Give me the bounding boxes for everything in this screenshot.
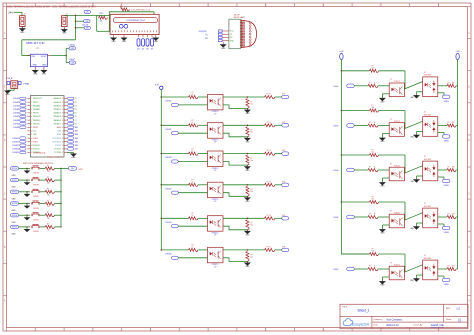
svg-text:Adarsh_Nair: Adarsh_Nair [431, 324, 444, 327]
mcu pin L15 [12, 148, 41, 151]
mcu U2 ATMEGA32 [30, 96, 64, 158]
terminal block J2 [62, 14, 68, 27]
svg-text:SW-PB: SW-PB [33, 196, 39, 198]
LCD pins [113, 30, 157, 32]
wire label to opto block 5 [178, 225, 207, 227]
svg-text:R? 1k: R? 1k [267, 215, 271, 217]
wire driver gnd block 1 [417, 91, 423, 93]
mcu pin L6 [13, 115, 41, 118]
wire driver output block 2 [438, 125, 447, 127]
wire to output label block 4 [275, 184, 282, 186]
svg-text:SW1: SW1 [75, 127, 79, 129]
wire label to opto block 1 [178, 104, 207, 106]
svg-text:R? 1k: R? 1k [267, 181, 271, 183]
wire from 24V bus to LCD [97, 14, 110, 16]
svg-text:R?: R? [372, 105, 374, 107]
ground block 4 [245, 196, 250, 200]
junction mid rail block 6 [161, 249, 163, 251]
LCD display U3 16X2 [110, 14, 159, 34]
wire resistor to rail row 2 [55, 179, 62, 181]
svg-text:GND: GND [230, 40, 235, 42]
mcu pin L9 [13, 126, 38, 129]
mcu pin R7 [54, 119, 77, 122]
ground under J3 [13, 88, 15, 90]
ground under RS232 [222, 42, 224, 44]
svg-text:1.5KHZ2: 1.5KHZ2 [13, 105, 19, 107]
svg-text:10k: 10k [250, 256, 253, 258]
wire rail to resistor block 3 [161, 153, 188, 155]
svg-text:GND: GND [380, 233, 385, 235]
wire opto emitter gnd right block 2 [382, 133, 389, 135]
EasyEDA logo [343, 319, 369, 327]
ground under J1 [20, 27, 25, 31]
wire resistor to opto block 2 [198, 124, 208, 126]
svg-text:GPIO0: GPIO0 [12, 168, 17, 170]
svg-text:1.5KHZ5: 1.5KHZ5 [13, 116, 19, 118]
ground opto right block 4 [380, 229, 385, 232]
svg-text:GND: GND [221, 48, 226, 50]
svg-text:1.5KH1: 1.5KH1 [333, 86, 338, 88]
resistor pulldown block 2 [246, 127, 249, 137]
wire driver gnd block 3 [417, 175, 423, 177]
svg-text:R?: R? [250, 158, 252, 160]
svg-text:U?: U? [214, 113, 216, 115]
wire VOUT [50, 55, 66, 57]
svg-text:R?: R? [369, 82, 371, 84]
svg-text:U?: U? [424, 72, 426, 74]
svg-text:1.5KHZ0: 1.5KHZ0 [13, 98, 19, 100]
mcu pin R6 [54, 115, 77, 118]
wire opto collector block 5 [223, 217, 247, 219]
svg-text:GPIO2: GPIO2 [12, 192, 17, 194]
wire opto emitter gnd right block 1 [382, 93, 389, 95]
mcu pin R15 [54, 148, 78, 151]
wire rail corner to block5 [341, 253, 369, 255]
wire driver gnd block 2 [417, 131, 423, 133]
svg-text:GND: GND [245, 113, 250, 115]
wire pullup to collector block 3 [379, 154, 405, 156]
resistor pulldown block 4 [246, 186, 249, 196]
svg-text:D6: D6 [146, 49, 148, 51]
svg-text:R?: R? [369, 122, 371, 124]
wire rail pullup block 4 [341, 201, 369, 203]
connector J3 PYNB [6, 77, 29, 88]
mcu pin L1 [13, 97, 42, 100]
svg-text:PB7/SCK: PB7/SCK [33, 123, 41, 125]
svg-text:1.5KHZ2: 1.5KHZ2 [165, 129, 172, 131]
svg-text:REV:: REV: [446, 308, 451, 310]
ground opto right block 5 [380, 281, 385, 284]
svg-text:PYN_A: PYN_A [6, 77, 13, 80]
power tap for LCD backlight [120, 5, 122, 8]
wire right column right rail [457, 60, 459, 269]
net label VIN [84, 20, 91, 23]
svg-text:24VB5: 24VB5 [444, 284, 449, 286]
svg-text:R?: R? [372, 65, 374, 67]
mcu pin L4 [13, 108, 40, 111]
ground LCD pin16 [154, 37, 159, 40]
svg-text:R?: R? [192, 213, 194, 215]
mcu pin L14 [12, 144, 41, 147]
wire diagonal to driver block 2 [404, 121, 422, 129]
svg-text:R?: R? [369, 266, 371, 268]
svg-text:GND: GND [11, 198, 16, 200]
svg-text:Company:: Company: [373, 319, 383, 321]
svg-text:PD0/RXD: PD0/RXD [33, 145, 41, 147]
svg-text:PYNB: PYNB [23, 84, 29, 86]
wire driver out2 block 1 [438, 92, 444, 94]
wire rail to resistor block 6 [161, 249, 188, 251]
svg-text:CON_TERMINAL_BLOCK_01X02 10 WA: CON_TERMINAL_BLOCK_01X02 10 WAY [52, 5, 96, 8]
switch SW1 [31, 168, 33, 170]
net label SW row 5 [10, 214, 18, 217]
switch SW4 [31, 203, 33, 205]
svg-text:R?: R? [250, 101, 252, 103]
svg-text:PC4/TDO: PC4/TDO [54, 149, 62, 151]
net label SW row 6 [10, 225, 18, 228]
svg-text:SW2: SW2 [75, 131, 79, 133]
svg-text:U?: U? [214, 201, 216, 203]
mcu pin R12 [52, 137, 78, 140]
wire switch to resistor row 4 [40, 203, 45, 205]
wire to output label block 3 [275, 153, 282, 155]
wire switch 3V3 rail [60, 168, 62, 227]
wire opto emitter block 1 [223, 105, 247, 109]
wire resistor to rail row 6 [55, 226, 62, 228]
svg-text:U?: U? [424, 255, 426, 257]
svg-text:R?: R? [369, 167, 371, 169]
svg-text:MOC3021: MOC3021 [424, 75, 431, 77]
wire switch row 1 [19, 167, 30, 169]
wire switch row 4 [19, 203, 30, 205]
svg-text:1.5KH3: 1.5KH3 [333, 170, 338, 172]
svg-text:1.5KH4: 1.5KH4 [333, 217, 338, 219]
wire to output label block 6 [275, 249, 282, 251]
svg-text:U?: U? [424, 156, 426, 158]
svg-text:MOC3021: MOC3021 [424, 258, 431, 260]
svg-text:GND: GND [245, 235, 250, 237]
svg-text:U?: U? [390, 79, 392, 81]
svg-text:GND: GND [32, 65, 37, 67]
resistor pulldown block 5 [246, 220, 249, 230]
ground under regulator pin GND1 [33, 69, 38, 72]
svg-text:LCD_PWR 16X2_LCD: LCD_PWR 16X2_LCD [131, 9, 151, 11]
svg-text:10k: 10k [47, 194, 50, 196]
svg-text:VIN: VIN [31, 56, 35, 58]
ground block 5 [245, 230, 250, 234]
mcu pin R10 [58, 130, 79, 133]
wire diagonal to driver block 5 [404, 265, 422, 273]
wire driver out2 block 3 [438, 176, 444, 178]
svg-text:GPIO3: GPIO3 [12, 203, 17, 205]
mcu pin R8 [54, 122, 77, 125]
svg-text:R2: R2 [75, 102, 77, 104]
ground switch row 2 [25, 182, 29, 185]
ground switch row 4 [25, 206, 29, 209]
svg-text:1.5KH2: 1.5KH2 [333, 126, 338, 128]
wire to output label block 1 [275, 96, 282, 98]
net label output right block 3 [442, 179, 450, 182]
svg-text:PB6/MISO: PB6/MISO [33, 120, 41, 122]
wire opto emitter gnd right block 3 [382, 177, 389, 179]
svg-text:1.5KHZ3: 1.5KHZ3 [13, 109, 19, 111]
svg-text:GND: GND [245, 170, 250, 172]
net label output right block 4 [442, 226, 450, 229]
wire to output label block 5 [275, 217, 282, 219]
svg-text:D7: D7 [151, 49, 153, 51]
junction mid rail block 2 [161, 125, 163, 127]
svg-text:360: 360 [452, 82, 455, 84]
mcu pin L3 [13, 104, 40, 107]
junction right rail block 3 [341, 154, 343, 156]
wire to output resistor block 1 [247, 96, 264, 98]
svg-text:10k: 10k [100, 20, 103, 22]
svg-text:GND: GND [245, 142, 250, 144]
mcu pin L7 [13, 119, 41, 122]
resistor pulldown block 6 [246, 251, 249, 261]
svg-text:GND: GND [11, 234, 16, 236]
svg-text:PC6/TOSC1: PC6/TOSC1 [52, 141, 61, 143]
ground switch row 1 [25, 170, 29, 173]
svg-text:10k: 10k [47, 206, 50, 208]
ground opto right block 2 [380, 137, 385, 140]
optocoupler U3 PC817 [208, 151, 224, 167]
svg-text:10k: 10k [250, 225, 253, 227]
wire opto emitter block 5 [223, 226, 247, 230]
ground opto right block 3 [380, 182, 385, 185]
wire to output resistor block 4 [247, 184, 264, 186]
junction mid rail block 4 [161, 184, 163, 186]
optocoupler U4 PC817 [208, 182, 224, 198]
svg-text:U?: U? [214, 266, 216, 268]
svg-text:GND: GND [154, 41, 159, 43]
mcu pin R1 [54, 97, 77, 100]
svg-text:LCD/DISPLAY_16X2: LCD/DISPLAY_16X2 [126, 19, 146, 22]
svg-text:GPIO4: GPIO4 [12, 215, 17, 217]
svg-text:R5: R5 [75, 113, 77, 115]
svg-text:Sheet_1: Sheet_1 [358, 308, 370, 312]
svg-text:R?: R? [250, 130, 252, 132]
svg-text:PB1/T1: PB1/T1 [33, 102, 38, 104]
svg-text:10k: 10k [250, 191, 253, 193]
svg-text:GND: GND [42, 65, 47, 67]
ground switch row 5 [25, 217, 29, 220]
svg-text:1.5KHZ13: 1.5KHZ13 [12, 145, 19, 147]
wire driver out2 block 5 [438, 275, 444, 277]
svg-text:R?: R? [250, 189, 252, 191]
wire pullup to collector block 4 [379, 201, 405, 203]
svg-text:1.0: 1.0 [456, 307, 460, 311]
junction mid rail block 1 [161, 96, 163, 98]
mcu pin R4 [54, 108, 77, 111]
svg-text:1.5KHZ8: 1.5KHZ8 [13, 127, 19, 129]
ground mcu [71, 153, 76, 157]
wire driver out2 block 4 [438, 223, 444, 225]
svg-text:J?: J? [24, 14, 26, 16]
svg-text:SW-PB: SW-PB [33, 231, 39, 233]
svg-text:1.5KHZ: 1.5KHZ [69, 45, 76, 47]
svg-text:24VB1: 24VB1 [444, 101, 449, 103]
wire rail to resistor block 4 [161, 184, 188, 186]
net flag 24V [84, 10, 91, 13]
mcu pin R9 [57, 126, 78, 129]
svg-text:R?: R? [372, 249, 374, 251]
ground block 3 [245, 165, 250, 169]
svg-text:GND: GND [380, 285, 385, 287]
svg-text:R? 1k: R? 1k [267, 247, 271, 249]
wire resistor to opto block 5 [198, 217, 208, 219]
svg-text:10k: 10k [47, 171, 50, 173]
svg-text:Drawn By:: Drawn By: [414, 325, 424, 327]
wire diagonal to driver block 3 [404, 166, 422, 174]
wire loop around LCD [109, 12, 154, 32]
wire diagonal to driver block 1 [404, 82, 422, 90]
svg-text:PC7/TOSC2: PC7/TOSC2 [52, 138, 61, 140]
svg-text:R?: R? [250, 254, 252, 256]
wire input right block 4 [354, 216, 368, 218]
svg-text:EasyEDA: EasyEDA [352, 321, 369, 326]
net label 24V2 [84, 26, 91, 29]
title block [340, 304, 468, 328]
wire resistor to opto block 6 [198, 249, 208, 251]
wire label to opto block 3 [178, 161, 207, 163]
wire resistor to rail row 4 [55, 203, 62, 205]
svg-text:U?: U? [390, 163, 392, 165]
svg-text:U?: U? [390, 262, 392, 264]
mcu pin L5 [13, 112, 39, 115]
wire resistor to opto block 4 [198, 184, 208, 186]
svg-text:10k: 10k [47, 218, 50, 220]
svg-text:R8: R8 [75, 123, 77, 125]
ground switch row 3 [25, 194, 29, 197]
mcu pin L8 [13, 122, 41, 125]
svg-text:1.5KHZ4: 1.5KHZ4 [13, 113, 19, 115]
wire driver gnd block 4 [417, 222, 423, 224]
junction right rail block 1 [341, 70, 343, 72]
svg-text:PC5/TDI: PC5/TDI [55, 145, 62, 147]
mcu pin L16 [12, 151, 40, 154]
wire resistor to rail row 3 [55, 191, 62, 193]
wire switch row 5 [19, 214, 30, 216]
net labels D4-D7 [137, 39, 154, 51]
svg-text:GND: GND [11, 222, 16, 224]
wire mcu GND [67, 152, 74, 154]
svg-text:R4: R4 [75, 109, 77, 111]
ground LCD pin5 [122, 37, 127, 40]
wire opto emitter gnd right block 5 [382, 276, 389, 278]
mcu pin R16 [54, 152, 67, 154]
svg-text:1.5KHZ12: 1.5KHZ12 [12, 141, 19, 143]
svg-text:24V: 24V [8, 10, 13, 14]
svg-text:D5: D5 [142, 49, 144, 51]
wire driver output block 5 [438, 268, 447, 270]
wire to output resistor block 6 [247, 249, 264, 251]
svg-text:GND: GND [20, 32, 25, 34]
ground LCD pin1 [111, 37, 116, 40]
svg-text:SW6: SW6 [75, 145, 79, 147]
svg-text:U?: U? [424, 203, 426, 205]
mcu pin L10 [27, 131, 37, 133]
wire resistor to rail row 5 [55, 214, 62, 216]
mcu pin L11 [27, 134, 37, 136]
svg-text:2019-12-10: 2019-12-10 [386, 324, 399, 327]
svg-text:1.5KHZ15: 1.5KHZ15 [12, 152, 19, 154]
connector DB9 female [240, 20, 256, 48]
svg-text:GND: GND [380, 102, 385, 104]
ground under regulator pin GND2 [42, 69, 47, 72]
switch SW3 [31, 191, 33, 193]
wire driver output block 3 [438, 169, 447, 171]
terminal block J1 [20, 14, 26, 27]
svg-text:3.3V(RX): 3.3V(RX) [199, 31, 208, 33]
ground under J2 [62, 27, 67, 31]
net label SW row 4 [10, 202, 18, 205]
wire switch to resistor row 2 [40, 179, 45, 181]
svg-text:GPIO1: GPIO1 [12, 180, 17, 182]
svg-text:GND: GND [122, 41, 127, 43]
svg-text:10k: 10k [250, 160, 253, 162]
svg-text:PB0/XCK/T0: PB0/XCK/T0 [33, 98, 42, 100]
wire input right block 1 [354, 85, 368, 87]
svg-text:MOC3021: MOC3021 [424, 159, 431, 161]
svg-text:10k: 10k [47, 230, 50, 232]
wire opto collector block 4 [223, 184, 247, 186]
svg-text:R16: R16 [100, 13, 103, 15]
wire label to opto block 6 [178, 257, 207, 259]
switch SW6 [31, 226, 33, 228]
svg-text:TITLE:: TITLE: [342, 307, 348, 309]
wire to output resistor block 5 [247, 217, 264, 219]
resistor pulldown block 3 [246, 155, 249, 165]
svg-text:R?: R? [192, 245, 194, 247]
wire opto collector block 2 [223, 124, 247, 126]
svg-text:24VB2: 24VB2 [444, 141, 449, 143]
svg-text:RS232 UART: RS232 UART [234, 16, 246, 19]
svg-text:Your Company: Your Company [386, 318, 403, 321]
net label output right block 5 [442, 278, 450, 281]
junction mid rail block 5 [161, 218, 163, 220]
svg-text:360: 360 [452, 214, 455, 216]
wire rail to resistor block 5 [161, 217, 188, 219]
svg-text:SW-PB: SW-PB [33, 173, 39, 175]
svg-text:MOC3021: MOC3021 [424, 114, 431, 116]
mcu pin L12 [12, 137, 38, 140]
junction right rail block 4 [341, 201, 343, 203]
svg-text:GND: GND [5, 94, 10, 96]
svg-text:D4: D4 [137, 49, 139, 51]
wire 24V to J1 [14, 11, 23, 13]
svg-text:R? 1k: R? 1k [267, 94, 271, 96]
wire resistor to opto block 3 [198, 153, 208, 155]
svg-text:U?: U? [390, 119, 392, 121]
wire opto emitter block 2 [223, 133, 247, 137]
wire driver gnd block 5 [417, 274, 423, 276]
wire input right block 2 [354, 125, 368, 127]
wire VIN net to regulator [22, 39, 76, 41]
wire pullup to collector block 1 [379, 70, 405, 72]
wire switch to resistor row 3 [40, 191, 45, 193]
wire input right block 3 [354, 169, 368, 171]
ground switch row 6 [25, 229, 29, 232]
wire driver output block 4 [438, 216, 447, 218]
svg-text:GND: GND [11, 210, 16, 212]
svg-text:SW3: SW3 [75, 134, 79, 136]
svg-text:CON_TERMINAL_BLOCK_01X02 10 WA: CON_TERMINAL_BLOCK_01X02 10 WAY [7, 5, 51, 8]
net label output right block 1 [442, 95, 450, 98]
svg-text:R?: R? [372, 150, 374, 152]
wire switch to resistor row 1 [40, 167, 45, 169]
net label output right block 2 [442, 135, 450, 138]
